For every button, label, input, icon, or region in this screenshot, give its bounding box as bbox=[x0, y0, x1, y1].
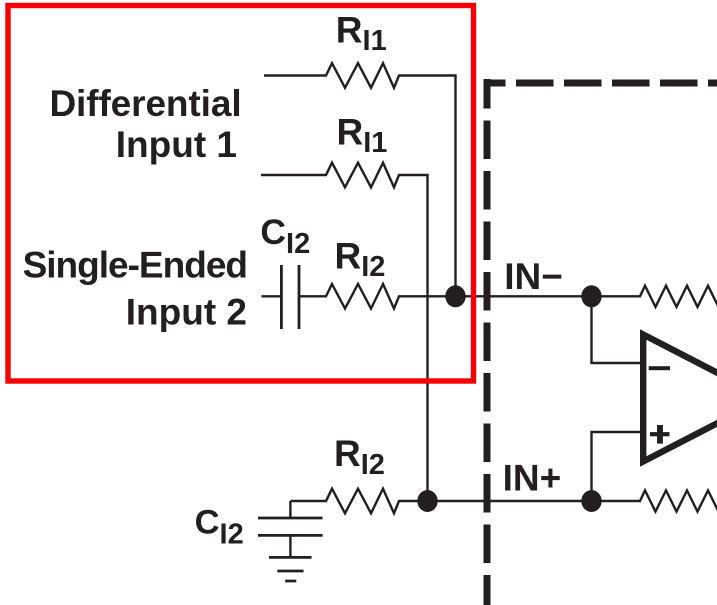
svg-text:RI2: RI2 bbox=[334, 433, 385, 481]
dashed device boundary: left vertical bbox=[484, 79, 491, 605]
wire: node D to op-amp non-inverting input bbox=[592, 432, 643, 501]
node B junction dot bbox=[417, 490, 437, 512]
svg-text:Input 1: Input 1 bbox=[116, 124, 237, 165]
svg-text:RI2: RI2 bbox=[335, 236, 386, 284]
wire: IN- row with resistor R_I2 zigzag and feedback resistor bbox=[299, 284, 717, 309]
wire: stub from IN+ row down into capacitor C_I2 (bottom) bbox=[289, 501, 291, 518]
node A junction dot bbox=[445, 285, 465, 307]
dashed device boundary: top horizontal bbox=[484, 80, 717, 87]
op-amp non-inverting input plus sign bbox=[650, 432, 670, 436]
red highlight box around input network bbox=[8, 6, 474, 382]
svg-text:RI1: RI1 bbox=[337, 112, 388, 160]
svg-text:CI2: CI2 bbox=[195, 504, 244, 551]
wire: capacitor C_I2 (bottom) to ground bbox=[289, 535, 291, 557]
svg-text:Input 2: Input 2 bbox=[126, 292, 247, 333]
node D junction dot bbox=[581, 490, 601, 512]
svg-text:RI1: RI1 bbox=[336, 10, 387, 58]
node C junction dot bbox=[581, 285, 601, 307]
capacitor C_I2 (bottom) plates bbox=[258, 518, 323, 535]
wire: single-ended input 2 stub into capacitor C_I2 bbox=[262, 295, 282, 297]
wire: node C to op-amp inverting input bbox=[592, 296, 643, 363]
wire: IN+ row with resistor R_I2 (bottom) zigzag and feedback resistor bbox=[290, 489, 717, 514]
svg-text:IN−: IN− bbox=[504, 256, 563, 297]
capacitor C_I2 (input 2) plates bbox=[281, 265, 299, 329]
svg-text:CI2: CI2 bbox=[260, 212, 310, 260]
svg-text:IN+: IN+ bbox=[503, 457, 562, 498]
wire: differential input 1 bottom lead, resistor R_I1 (second) zigzag, down to node B bbox=[261, 163, 428, 501]
wire: differential input 1 top lead, resistor R_I1 zigzag, down to node A bbox=[264, 63, 456, 296]
ground bbox=[269, 557, 312, 581]
svg-text:Differential: Differential bbox=[49, 83, 241, 124]
svg-text:Single-Ended: Single-Ended bbox=[23, 245, 247, 286]
op-amp U1 triangle bbox=[643, 335, 717, 462]
op-amp inverting input minus sign bbox=[649, 366, 670, 370]
